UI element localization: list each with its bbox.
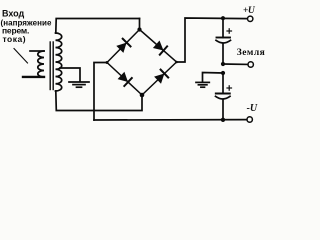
svg-text:Вход: Вход	[2, 9, 25, 19]
junction: bridge top corner	[137, 27, 141, 31]
bridge side wire B-R	[142, 62, 177, 95]
junction: bridge left corner	[106, 61, 109, 64]
capacitor C2 lead	[222, 73, 224, 94]
capacitor C1 top plate	[217, 37, 231, 39]
transformer T1 primary winding	[38, 51, 44, 77]
leader line from input label to transformer primary	[14, 49, 28, 64]
wire: drop from top rail to bridge top corner	[139, 19, 141, 30]
svg-text:Земля: Земля	[237, 48, 265, 58]
wire: filter ground tap	[203, 73, 224, 82]
svg-text:-U: -U	[247, 103, 258, 114]
ground (center tap)	[69, 82, 89, 87]
capacitor C1 plus sign	[227, 29, 232, 33]
transformer T1 core	[49, 42, 51, 90]
bridge side wire L-T	[107, 30, 140, 63]
ground (filter midpoint)	[196, 82, 209, 87]
label: Вход (напряжение перем. тока)	[1, 9, 52, 45]
bridge side wire L-B	[107, 63, 142, 96]
wire: secondary top lead up to top rail	[56, 19, 140, 34]
capacitor C2 plus sign	[227, 86, 232, 90]
transformer T1 primary top lead	[30, 50, 44, 52]
wire: to Земля terminal	[223, 63, 248, 65]
capacitor C1 lead	[222, 18, 224, 37]
wire: bridge right corner up to +U rail	[177, 18, 248, 62]
terminal -U	[247, 117, 252, 122]
capacitor C2 bottom plate (curved)	[216, 96, 231, 99]
transformer T1 secondary winding	[56, 33, 62, 91]
wire: transformer center tap to ground	[60, 68, 80, 81]
bridge side wire T-R	[140, 30, 177, 63]
terminal +U	[248, 16, 253, 21]
diode D3 (left corner to bottom corner)	[118, 72, 128, 82]
junction: bridge bottom corner	[140, 93, 145, 98]
svg-text:тока): тока)	[3, 34, 27, 44]
wire: secondary bottom lead down and right to bridge bottom corner	[56, 91, 142, 111]
wire: -U bottom rail	[94, 119, 247, 121]
junction: filter ground tap	[221, 71, 225, 75]
label Земля	[237, 48, 265, 58]
label -U	[247, 103, 258, 114]
junction: -U rail / C2	[221, 118, 225, 122]
capacitor C2 lower lead	[222, 99, 224, 120]
transformer T1 primary bottom lead	[23, 76, 44, 78]
capacitor C1 lower lead	[222, 43, 224, 64]
diode D4 (bottom corner to right corner)	[154, 74, 164, 84]
junction: ground rail / C1-C2	[221, 62, 225, 66]
junction: bridge right corner	[175, 61, 178, 64]
capacitor C2 top plate	[216, 93, 230, 95]
wire: bridge left corner to -U rail	[94, 63, 107, 121]
terminal Земля	[248, 62, 253, 67]
diode D1 (left corner to top corner)	[116, 43, 126, 53]
junction: +U rail / C1	[221, 16, 225, 20]
capacitor C1 bottom plate (curved)	[216, 40, 231, 43]
diode D2 (top corner to right corner)	[153, 41, 164, 51]
label +U	[243, 6, 256, 16]
svg-text:+U: +U	[243, 6, 256, 16]
